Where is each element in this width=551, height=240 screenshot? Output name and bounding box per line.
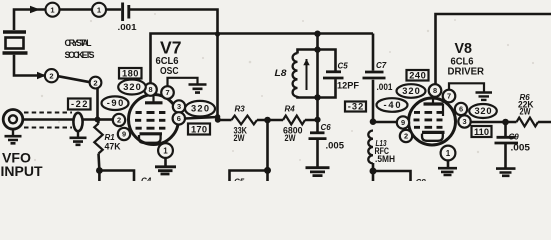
svg-text:320: 320 xyxy=(402,86,420,96)
svg-text:C6: C6 xyxy=(321,123,332,132)
svg-text:2W: 2W xyxy=(520,107,531,117)
svg-text:-40: -40 xyxy=(384,100,401,110)
svg-text:-90: -90 xyxy=(107,98,124,108)
svg-text:320: 320 xyxy=(191,104,209,114)
svg-text:9: 9 xyxy=(401,118,405,127)
svg-text:8: 8 xyxy=(433,86,437,95)
svg-text:7: 7 xyxy=(165,88,169,97)
svg-text:.5MH: .5MH xyxy=(375,154,395,164)
svg-text:6: 6 xyxy=(459,105,463,114)
svg-text:2: 2 xyxy=(93,78,97,87)
svg-text:1: 1 xyxy=(446,149,451,158)
svg-text:2: 2 xyxy=(404,132,408,141)
svg-text:2W: 2W xyxy=(285,133,296,143)
svg-text:C8: C8 xyxy=(416,178,427,181)
svg-text:OSC: OSC xyxy=(160,65,179,77)
svg-text:V8: V8 xyxy=(455,40,473,57)
svg-text:2: 2 xyxy=(49,71,53,80)
svg-text:240: 240 xyxy=(409,71,426,81)
svg-text:SOCKETS: SOCKETS xyxy=(65,50,95,60)
svg-text:R3: R3 xyxy=(235,105,246,114)
svg-text:.005: .005 xyxy=(326,141,345,151)
svg-text:170: 170 xyxy=(191,125,207,135)
svg-text:C9: C9 xyxy=(509,133,520,142)
svg-text:.005: .005 xyxy=(511,143,531,153)
svg-text:320: 320 xyxy=(123,82,141,92)
svg-text:-22: -22 xyxy=(71,99,88,109)
svg-text:R4: R4 xyxy=(285,105,296,114)
svg-text:L8: L8 xyxy=(275,68,287,78)
svg-text:C4: C4 xyxy=(141,177,152,182)
svg-text:CRYSTAL: CRYSTAL xyxy=(65,38,93,48)
svg-text:110: 110 xyxy=(474,127,489,137)
svg-text:-32: -32 xyxy=(348,102,364,112)
svg-text:2: 2 xyxy=(117,116,121,125)
svg-text:1: 1 xyxy=(163,147,168,156)
svg-text:12PF: 12PF xyxy=(337,81,360,91)
svg-text:3: 3 xyxy=(177,102,181,111)
svg-text:6: 6 xyxy=(177,114,181,123)
svg-text:8: 8 xyxy=(148,85,152,94)
svg-text:2W: 2W xyxy=(234,133,245,143)
svg-text:C5: C5 xyxy=(338,62,349,71)
svg-text:47K: 47K xyxy=(105,142,121,152)
svg-text:C7: C7 xyxy=(376,61,387,70)
svg-text:180: 180 xyxy=(122,69,139,79)
svg-text:7: 7 xyxy=(447,92,451,101)
svg-text:C5: C5 xyxy=(234,178,245,182)
svg-text:.001: .001 xyxy=(118,23,138,32)
svg-text:9: 9 xyxy=(122,130,126,139)
svg-text:DRIVER: DRIVER xyxy=(448,67,485,78)
svg-text:INPUT: INPUT xyxy=(1,164,44,179)
svg-text:.001: .001 xyxy=(377,82,393,92)
svg-text:320: 320 xyxy=(475,106,492,116)
svg-text:3: 3 xyxy=(462,117,466,126)
